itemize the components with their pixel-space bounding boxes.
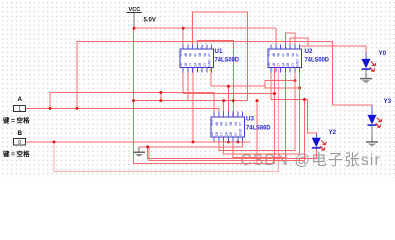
svg-text:2Y: 2Y [234, 131, 238, 136]
svg-text:Y0: Y0 [379, 50, 387, 57]
svg-text:74LS00D: 74LS00D [215, 57, 240, 64]
junction mid bus drop1 [222, 99, 225, 102]
svg-text:3A: 3A [234, 121, 238, 126]
wire U2 pin8 to LED Y0 [300, 46, 366, 58]
wire A second riser [50, 93, 214, 118]
wire mid bus drop right [256, 101, 258, 164]
svg-text:VCC: VCC [210, 118, 214, 126]
wire U1 pin3 to B run [192, 67, 194, 142]
svg-text:5.0V: 5.0V [144, 18, 156, 24]
junction stair tap [294, 79, 297, 82]
IC U1 74LS00D [179, 45, 239, 73]
svg-text:4A: 4A [189, 52, 193, 57]
junction A riser 2 [49, 107, 52, 110]
wire U3 pin 8 into B run [237, 137, 239, 142]
svg-text:U2: U2 [305, 48, 313, 55]
svg-text:2Y: 2Y [203, 62, 207, 67]
svg-text:1A: 1A [179, 62, 183, 67]
svg-text:3A: 3A [203, 52, 207, 57]
svg-text:U1: U1 [215, 48, 223, 55]
wire branch to stair2 vertical [265, 86, 300, 88]
wire ground second run to stair [149, 99, 305, 160]
svg-text:0: 0 [18, 140, 21, 146]
svg-text:1: 1 [18, 107, 21, 113]
wire VCC to U1 pin 14 [182, 28, 184, 49]
junction U2 drop at pin1 run [273, 92, 276, 95]
LED Y2 [312, 129, 337, 150]
junction Y2 feed tap [303, 98, 306, 101]
svg-text:3B: 3B [286, 52, 290, 57]
switch A [2, 96, 30, 125]
wire ground run [139, 142, 243, 147]
svg-text:1Y: 1Y [220, 131, 224, 136]
wire switch A output run [26, 108, 220, 117]
wire U2 loop big [290, 38, 308, 49]
junction mid bus right drop [256, 99, 259, 102]
svg-text:A: A [18, 96, 23, 103]
svg-text:3B: 3B [229, 121, 233, 126]
IC U3 74LS86D [210, 112, 271, 142]
svg-text:1A: 1A [267, 62, 271, 67]
svg-text:4B: 4B [272, 52, 276, 57]
wire small arch over U1 [197, 40, 233, 117]
wire switch B output run [26, 141, 251, 143]
ground symbol center [133, 147, 145, 157]
svg-text:4Y: 4Y [282, 52, 286, 57]
svg-text:GND: GND [208, 59, 212, 67]
wire U2 pin1 to LED Y2 [271, 67, 316, 137]
junction B drop [53, 140, 56, 143]
svg-text:B: B [18, 130, 23, 137]
svg-text:VCC: VCC [179, 49, 183, 57]
wire U1 pin2 to mid bus [187, 67, 189, 100]
svg-text:2B: 2B [229, 131, 233, 136]
wire U3 pin 10 drop from U1 output run [227, 86, 229, 117]
junction mid link top [159, 91, 162, 94]
wire A riser to top long run [77, 41, 372, 115]
svg-text:1A: 1A [210, 131, 214, 136]
junction A riser 1 [76, 107, 79, 110]
svg-text:3Y: 3Y [208, 52, 212, 57]
svg-text:74LS86D: 74LS86D [246, 125, 271, 132]
wire top arch over U1 [193, 12, 248, 101]
wire U2 loop small [285, 33, 295, 49]
svg-text:2A: 2A [194, 62, 198, 67]
junction U1 pin3 at B [192, 140, 195, 143]
junction mid link bottom [159, 99, 162, 102]
svg-text:2A: 2A [225, 131, 229, 136]
wire VCC to U2 pin 14 [275, 28, 277, 49]
svg-text:键 = 空格: 键 = 空格 [2, 149, 30, 158]
svg-text:1B: 1B [184, 62, 188, 67]
svg-text:2B: 2B [286, 62, 290, 67]
svg-text:4A: 4A [277, 52, 281, 57]
junction B run U3 pin drop1 [227, 140, 230, 143]
svg-text:U3: U3 [246, 116, 254, 123]
svg-text:3Y: 3Y [296, 52, 300, 57]
svg-text:键 = 空格: 键 = 空格 [2, 116, 30, 125]
power VCC symbol [127, 7, 156, 28]
svg-text:VCC: VCC [267, 49, 271, 57]
wire U3 pin 10 into B run [227, 137, 229, 142]
wire U2 pin2 long drop [274, 67, 276, 163]
svg-text:3Y: 3Y [239, 121, 243, 126]
wire U2 pin6 stair1 [219, 67, 295, 150]
IC U2 74LS00D [267, 45, 329, 73]
ground for Y3 [366, 126, 378, 147]
LED Y0 [362, 50, 387, 72]
wire mid bus link [160, 93, 162, 101]
svg-text:4Y: 4Y [194, 52, 198, 57]
svg-text:3A: 3A [291, 52, 295, 57]
svg-text:Y3: Y3 [384, 98, 392, 105]
svg-text:2A: 2A [282, 62, 286, 67]
junction mid bus left [132, 99, 135, 102]
junction stair2 tap [298, 86, 301, 89]
svg-text:1Y: 1Y [189, 62, 193, 67]
svg-text:74LS00D: 74LS00D [305, 57, 330, 64]
svg-text:3B: 3B [198, 52, 202, 57]
junction U3 pin10 tap [227, 85, 230, 88]
junction VCC stem [133, 27, 136, 30]
background dot grid [0, 0, 395, 178]
svg-text:4A: 4A [220, 121, 224, 126]
junction B run U3 pin drop2 [237, 140, 240, 143]
svg-text:GND: GND [296, 59, 300, 67]
svg-text:4Y: 4Y [225, 121, 229, 126]
wire VCC long vertical drop [134, 28, 275, 163]
svg-text:2Y: 2Y [291, 62, 295, 67]
LED Y3 [368, 98, 392, 128]
svg-text:1B: 1B [272, 62, 276, 67]
junction ground branch [146, 145, 149, 148]
wire B bottom loop [54, 67, 278, 171]
wire ground to Y2 cathode [148, 147, 317, 159]
wire U2 pin7 stair2 [224, 67, 300, 154]
svg-text:1B: 1B [215, 131, 219, 136]
ground for Y0 [360, 70, 372, 83]
wire U1 pin1 run right [183, 67, 274, 93]
svg-text:GND: GND [239, 128, 243, 136]
svg-text:2B: 2B [198, 62, 202, 67]
wire U1 pin6 output run [211, 67, 295, 86]
wire mid bus to U3 pin 12 [223, 101, 225, 117]
junction VCC at U1 drop [182, 27, 185, 30]
svg-text:Y2: Y2 [329, 129, 337, 136]
switch B [2, 130, 30, 158]
wire U2 pin5 stair3 [233, 67, 285, 157]
svg-text:4B: 4B [184, 52, 188, 57]
wire VCC horizontal run [134, 27, 276, 29]
wire mid bus [134, 100, 248, 102]
svg-text:4B: 4B [215, 121, 219, 126]
svg-text:1Y: 1Y [277, 62, 281, 67]
junction mid bus drop2 [232, 99, 235, 102]
